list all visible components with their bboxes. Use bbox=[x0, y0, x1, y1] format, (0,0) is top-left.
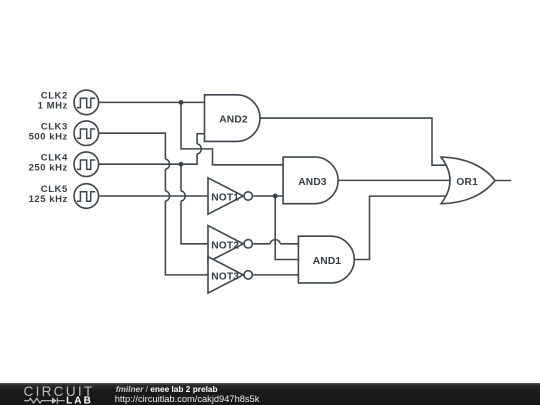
svg-text:250 kHz: 250 kHz bbox=[29, 162, 68, 173]
svg-text:http://circuitlab.com/cakjd947: http://circuitlab.com/cakjd947h8s5k bbox=[115, 394, 260, 404]
svg-text:NOT2: NOT2 bbox=[211, 240, 239, 251]
svg-text:AND2: AND2 bbox=[219, 115, 248, 126]
svg-text:AND1: AND1 bbox=[313, 256, 342, 267]
svg-text:NOT3: NOT3 bbox=[211, 271, 239, 282]
svg-text:1 MHz: 1 MHz bbox=[38, 101, 68, 112]
svg-text:OR1: OR1 bbox=[456, 177, 478, 188]
svg-text:fmilner / enee lab 2 prelab: fmilner / enee lab 2 prelab bbox=[116, 384, 218, 394]
svg-text:NOT1: NOT1 bbox=[211, 192, 239, 203]
svg-text:125 kHz: 125 kHz bbox=[29, 194, 68, 205]
svg-text:LAB: LAB bbox=[66, 395, 93, 405]
svg-text:500 kHz: 500 kHz bbox=[29, 131, 68, 142]
svg-text:AND3: AND3 bbox=[298, 177, 327, 188]
